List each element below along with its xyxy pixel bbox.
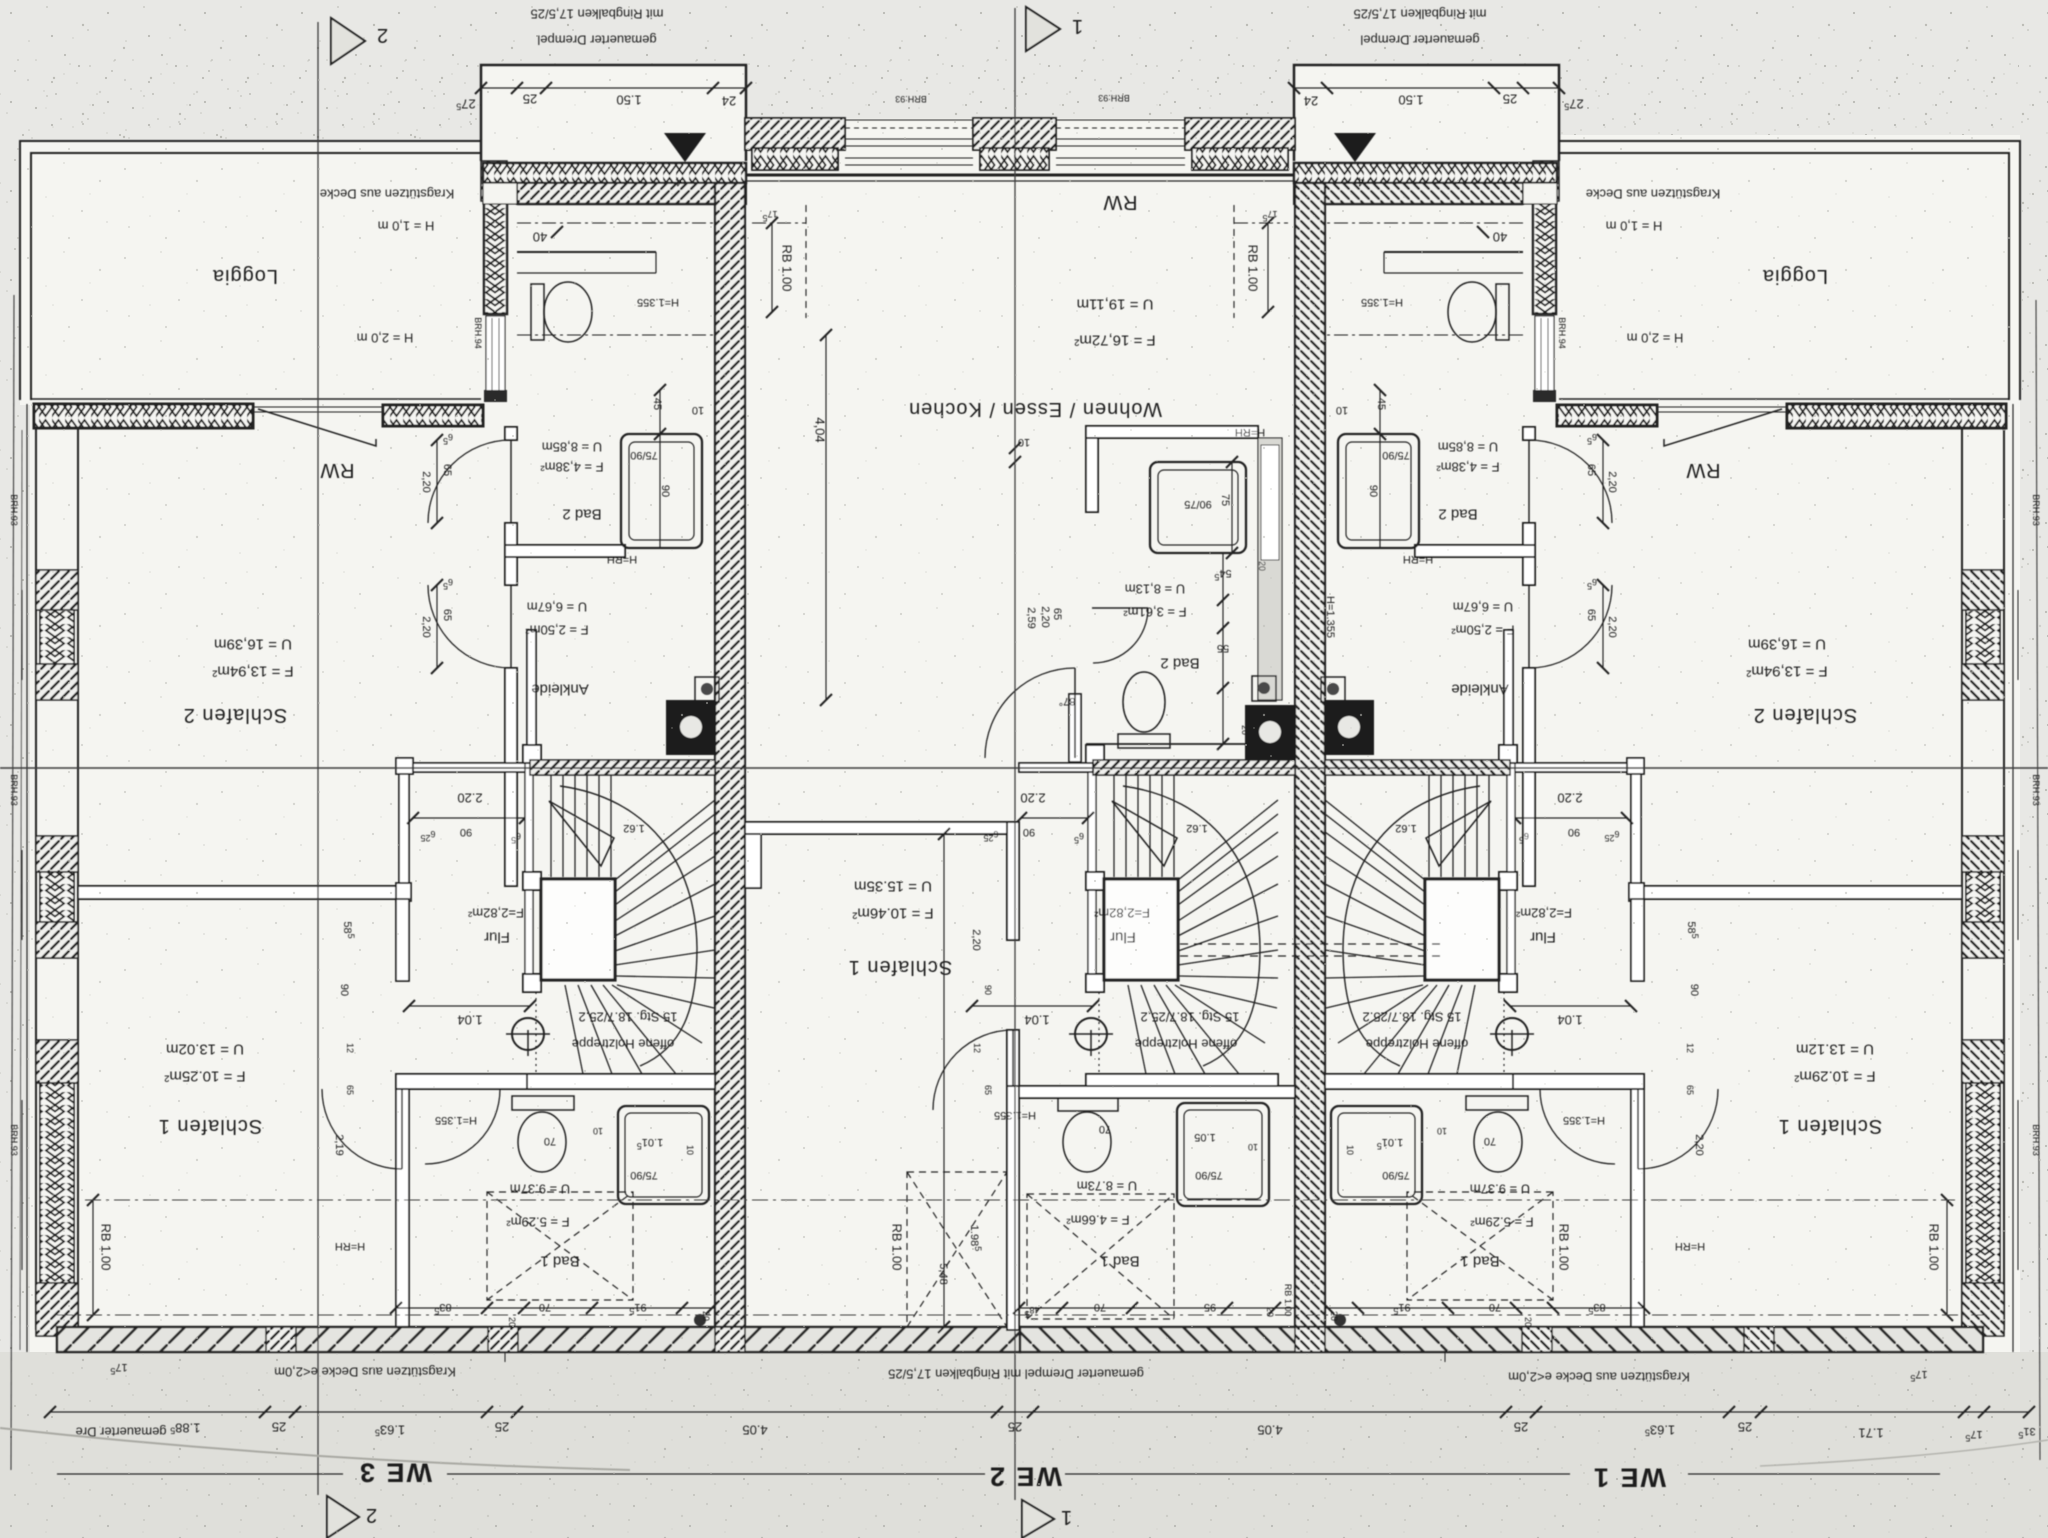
Flur north wall xyxy=(399,763,530,772)
window module B xyxy=(36,836,78,872)
loggia right wall w/ insulation and window xyxy=(484,200,507,314)
shower Bad2 WE3 75/90 xyxy=(621,434,702,548)
vent pipe + chimney WE3 xyxy=(695,677,719,702)
svg-text:gemauerter Drempel: gemauerter Drempel xyxy=(1360,32,1479,47)
section marker 2 top xyxy=(331,18,365,64)
door arc Bad2 xyxy=(510,440,512,523)
RB dim left xyxy=(92,1200,94,1315)
shower Bad2 WE2 xyxy=(1150,462,1246,553)
door arc Ankleide xyxy=(510,585,512,668)
dim 5.48 xyxy=(943,834,945,1327)
WC Bad1 WE2 xyxy=(1058,1098,1118,1111)
Bad1 south wall of flur area xyxy=(396,1074,527,1089)
section line 2 xyxy=(317,22,319,1495)
direction arrow xyxy=(549,801,614,866)
svg-text:2: 2 xyxy=(376,24,388,46)
bottom dim ticks bath xyxy=(396,1307,715,1309)
loggia bottom wall insulated xyxy=(34,404,253,428)
bath hall wall xyxy=(1019,1086,1295,1098)
svg-text:mit Ringbalken 17,5/25: mit Ringbalken 17,5/25 xyxy=(1354,6,1487,21)
south wall band xyxy=(57,1327,1020,1352)
walking line dotted xyxy=(535,992,537,1086)
door arcs xyxy=(1092,607,1148,609)
Bad2 niche lines xyxy=(517,251,656,253)
shaft grey xyxy=(1258,438,1282,700)
RB dashed zones living room xyxy=(805,205,807,318)
hatch band above stair xyxy=(530,760,715,775)
vent symbol xyxy=(512,1018,544,1050)
Ankleide closet wall xyxy=(527,630,536,763)
section line 1 xyxy=(1014,8,1016,1500)
Bad2 south wall + chimney WE2 xyxy=(1086,743,1295,745)
WE bracket lines xyxy=(57,1473,1940,1475)
door to Bad1 xyxy=(425,1088,500,1090)
dashed shower region xyxy=(487,1192,633,1300)
balcony door leaf xyxy=(253,406,383,408)
handrail curve xyxy=(560,786,697,1066)
bottom dim ticks xyxy=(1019,1307,1295,1309)
Flur west wall xyxy=(399,772,409,883)
winder treads fan xyxy=(565,800,715,1074)
party wall WE3/WE2 xyxy=(715,183,745,1330)
wall Schlafen2|Ankleide with two door openings xyxy=(505,427,517,440)
mid horizontal scan line xyxy=(0,767,2048,769)
loggia left: border xyxy=(20,141,481,400)
bulkhead wall: insulation + masonry xyxy=(483,163,746,183)
north wall piers xyxy=(745,118,845,150)
svg-text:1: 1 xyxy=(1071,15,1083,37)
wall Schlafen2|Schlafen1 xyxy=(78,886,398,899)
dim stacks doors Schlafen2 xyxy=(436,440,438,523)
shower Bad1 WE2 xyxy=(1177,1103,1269,1206)
stair well xyxy=(541,879,615,980)
sheet edge lines xyxy=(11,295,14,1470)
WC Bad2 WE2 xyxy=(1123,672,1165,732)
section marker 1 bottom xyxy=(1022,1500,1054,1538)
window module A xyxy=(36,570,78,610)
WC Bad2 WE3 xyxy=(531,284,544,340)
stair south wall xyxy=(523,1074,715,1089)
stair WE2 xyxy=(1069,745,1278,1089)
treads upper flight xyxy=(551,772,611,877)
dim 2.20 / 1.04 xyxy=(413,817,525,819)
Flur WE2 xyxy=(1019,763,1093,772)
Schlafen1 WE2 walls xyxy=(745,822,1007,834)
stair bulkhead left xyxy=(481,65,746,161)
void dashed box xyxy=(907,1172,1007,1327)
stair west rail xyxy=(525,747,533,872)
section marker 2 bottom xyxy=(327,1496,359,1538)
outer west wall xyxy=(26,404,28,1352)
Bad2 WE2 xyxy=(1086,426,1258,438)
shower Bad1 WE3 xyxy=(618,1106,709,1204)
door Flur->Schlafen1 xyxy=(401,1089,403,1169)
entrance arrow xyxy=(664,133,706,162)
ticks at section line xyxy=(1009,442,1021,454)
page curl shading xyxy=(0,1428,630,1470)
north wall WE2: sill+glazing lines xyxy=(745,174,1295,177)
svg-text:gemauerter Drempel: gemauerter Drempel xyxy=(537,32,656,47)
RB dash-dot lines xyxy=(85,1199,1955,1201)
dashed region Bad1 WE2 xyxy=(1027,1194,1174,1319)
svg-text:mit Ringbalken 17,5/25: mit Ringbalken 17,5/25 xyxy=(531,6,664,21)
leader Kragstuetzen left xyxy=(504,1352,506,1362)
Schlafen1 east wall xyxy=(396,1089,409,1330)
section marker 1 top xyxy=(1026,7,1060,51)
gray scan band bottom xyxy=(0,1352,2048,1538)
dashes across stairs xyxy=(1180,944,1445,956)
WC Bad1 WE3 xyxy=(512,1096,574,1110)
Bad2 south wall xyxy=(505,545,625,557)
window module C (tall) xyxy=(36,1040,78,1083)
dim 4.04 xyxy=(825,335,827,700)
